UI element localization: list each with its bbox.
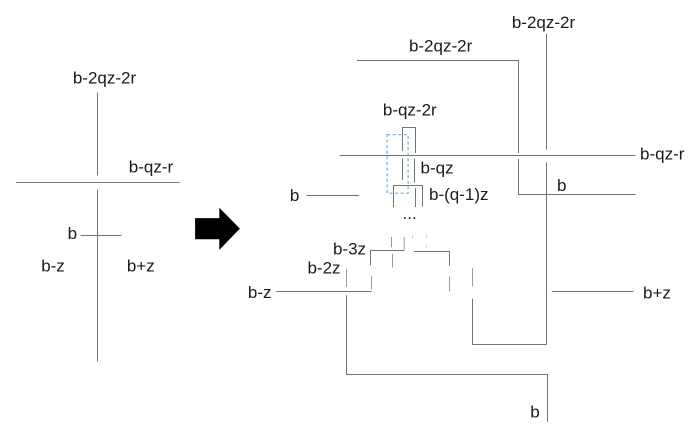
svg-text:b-(q-1)z: b-(q-1)z — [429, 185, 489, 204]
blue dashed rectangle — [387, 135, 408, 194]
wire: short vertical pair (b-qz) — [402, 158, 404, 180]
svg-text:b: b — [68, 224, 77, 243]
wire: lower vertical (left fig) — [97, 190, 99, 362]
wire: long horizontal (left fig) — [16, 182, 180, 184]
svg-text:b-2qz-2r: b-2qz-2r — [512, 13, 576, 32]
wire: dashed vertical top (b-2z riser) — [346, 269, 348, 287]
svg-text:b+z: b+z — [127, 257, 155, 276]
wire: bracket1 (b-3z) — [371, 251, 405, 266]
svg-text:b-2qz-2r: b-2qz-2r — [73, 69, 137, 88]
wire: long L path bottom (b-2z riser to bottom b) — [347, 295, 548, 422]
svg-text:b: b — [290, 186, 299, 205]
wire: short b horizontal left — [307, 195, 360, 197]
wire: stair corner path top — [357, 61, 519, 154]
wire: lower staple (b-(q-1)z interval) — [394, 186, 423, 208]
svg-text:b-z: b-z — [41, 257, 65, 276]
wire: dash above bracket1 left — [391, 237, 393, 247]
wire: faint dashes above bracket2 — [412, 235, 414, 238]
svg-text:b: b — [530, 403, 539, 422]
wire: dash above bracket1 right joining corner — [403, 237, 405, 251]
wire: tall right vertical — [546, 34, 548, 150]
svg-text:b-z: b-z — [248, 283, 272, 302]
svg-text:b: b — [557, 176, 566, 195]
svg-text:b-2z: b-2z — [307, 259, 340, 278]
wire: b+z horizontal — [552, 291, 634, 293]
svg-text:...: ... — [403, 204, 417, 223]
svg-text:b-qz-2r: b-qz-2r — [383, 101, 437, 120]
wire: middle dash below bracket1 — [392, 254, 394, 268]
svg-text:b+z: b+z — [643, 284, 671, 303]
wire: box left dash — [472, 268, 474, 286]
wire: box left solid + bottom — [473, 299, 547, 345]
svg-text:b-2qz-2r: b-2qz-2r — [409, 37, 473, 56]
wire: bracket2 — [414, 252, 449, 266]
svg-text:b-qz: b-qz — [421, 159, 454, 178]
wire: short b horizontal (left fig) — [81, 235, 122, 237]
wire: upper vertical (left fig) — [97, 93, 99, 176]
wire: inner vertical of lower staple — [415, 188, 417, 207]
wire: b-z horizontal — [276, 291, 371, 293]
wire: top staple (b-qz-2r interval) — [403, 128, 416, 154]
svg-text:b-qz-r: b-qz-r — [129, 158, 174, 177]
svg-text:b-qz-r: b-qz-r — [640, 145, 685, 164]
wire: long horizontal b-qz-r — [340, 155, 636, 157]
wire: riser dash above b-z line — [371, 276, 373, 290]
wire: dash below bracket2 corner — [449, 277, 451, 292]
svg-text:b-3z: b-3z — [333, 240, 366, 259]
